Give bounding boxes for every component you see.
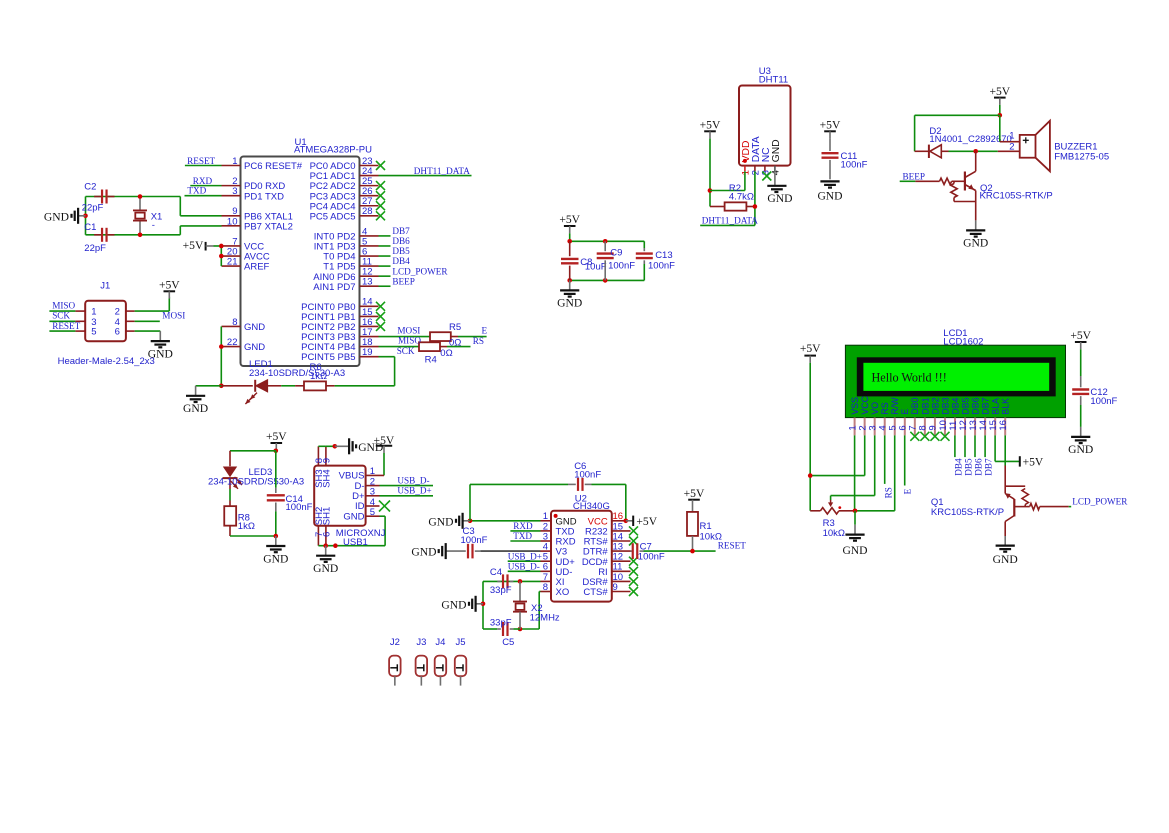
svg-text:PD1 TXD: PD1 TXD	[244, 191, 284, 202]
svg-text:MISO: MISO	[52, 300, 75, 310]
svg-text:19: 19	[362, 347, 373, 358]
svg-text:100nF: 100nF	[608, 261, 635, 272]
svg-text:MISO: MISO	[398, 336, 421, 346]
svg-text:100nF: 100nF	[1090, 396, 1117, 407]
svg-text:GND: GND	[313, 562, 338, 575]
svg-text:J2: J2	[390, 637, 400, 648]
svg-text:22: 22	[227, 337, 238, 348]
svg-text:33pF: 33pF	[490, 618, 512, 629]
svg-text:DB5: DB5	[392, 246, 410, 256]
svg-text:USB_D-: USB_D-	[397, 476, 429, 486]
svg-text:SCK: SCK	[52, 311, 70, 321]
svg-text:234-10SDRD/S530-A3: 234-10SDRD/S530-A3	[249, 368, 345, 379]
svg-text:RS: RS	[473, 336, 484, 346]
svg-text:10uF: 10uF	[585, 262, 607, 273]
svg-text:4.7kΩ: 4.7kΩ	[729, 192, 754, 203]
svg-text:J1: J1	[100, 281, 110, 292]
svg-text:DB2: DB2	[930, 397, 940, 414]
svg-text:SCK: SCK	[397, 346, 415, 356]
svg-text:+5V: +5V	[1023, 456, 1044, 469]
svg-text:GND: GND	[244, 342, 265, 353]
svg-text:+5V: +5V	[183, 239, 204, 252]
svg-text:DB4: DB4	[392, 256, 410, 266]
svg-text:LCD1602: LCD1602	[943, 336, 983, 347]
svg-text:RESET: RESET	[52, 321, 80, 331]
svg-text:SH4: SH4	[322, 469, 333, 487]
svg-text:+5V: +5V	[559, 213, 580, 226]
svg-text:+5V: +5V	[266, 430, 287, 443]
svg-text:+5V: +5V	[1070, 329, 1091, 342]
svg-text:DB5: DB5	[963, 458, 973, 476]
svg-text:GND: GND	[343, 511, 364, 522]
svg-text:C5: C5	[502, 637, 514, 648]
svg-text:MOSI: MOSI	[162, 310, 185, 320]
svg-text:DB6: DB6	[970, 397, 980, 414]
svg-text:8: 8	[543, 582, 548, 593]
svg-text:8: 8	[232, 317, 237, 328]
svg-text:100nF: 100nF	[648, 261, 675, 272]
svg-text:C13: C13	[655, 250, 672, 261]
svg-text:R5: R5	[449, 322, 461, 333]
svg-text:21: 21	[227, 257, 238, 268]
svg-text:J5: J5	[456, 637, 466, 648]
svg-text:TXD: TXD	[513, 531, 532, 541]
svg-text:RS: RS	[880, 402, 890, 414]
svg-text:+5V: +5V	[820, 119, 841, 132]
svg-text:DHT11_DATA: DHT11_DATA	[414, 166, 470, 176]
svg-text:MOSI: MOSI	[397, 326, 420, 336]
svg-text:DB7: DB7	[984, 458, 994, 476]
svg-text:1kΩ: 1kΩ	[238, 521, 255, 532]
svg-text:1: 1	[1009, 130, 1014, 141]
svg-text:100nF: 100nF	[461, 535, 488, 546]
svg-text:CTS#: CTS#	[583, 587, 608, 598]
svg-text:DB1: DB1	[920, 397, 930, 414]
svg-text:10: 10	[227, 216, 238, 227]
svg-text:4: 4	[771, 170, 782, 175]
svg-text:GND: GND	[263, 552, 288, 565]
svg-text:USB_D+: USB_D+	[397, 486, 431, 496]
svg-text:USB_D+: USB_D+	[508, 552, 542, 562]
svg-text:22pF: 22pF	[84, 243, 106, 254]
svg-text:GND: GND	[244, 322, 265, 333]
svg-text:GND: GND	[993, 553, 1018, 566]
svg-text:22pF: 22pF	[82, 202, 104, 213]
svg-text:6: 6	[115, 327, 120, 338]
svg-text:TXD: TXD	[187, 185, 206, 195]
svg-text:28: 28	[362, 206, 373, 217]
svg-text:GND: GND	[557, 297, 582, 310]
svg-text:BLA: BLA	[991, 398, 1001, 415]
svg-text:GND: GND	[771, 139, 782, 162]
svg-text:C2: C2	[84, 181, 96, 192]
svg-text:E: E	[482, 326, 488, 336]
svg-text:VO: VO	[870, 402, 880, 415]
svg-text:6: 6	[321, 532, 332, 537]
svg-text:E: E	[900, 409, 910, 415]
svg-text:10kΩ: 10kΩ	[823, 528, 845, 539]
svg-text:234-10SDRD/S530-A3: 234-10SDRD/S530-A3	[208, 477, 304, 488]
svg-text:RXD: RXD	[513, 521, 533, 531]
svg-text:VCC: VCC	[860, 395, 870, 414]
svg-text:+5V: +5V	[989, 85, 1010, 98]
svg-text:PC6 RESET#: PC6 RESET#	[244, 161, 303, 172]
svg-text:GND: GND	[44, 210, 69, 223]
svg-text:GND: GND	[441, 598, 466, 611]
svg-text:GND: GND	[411, 546, 436, 559]
svg-text:DB7: DB7	[981, 397, 991, 414]
svg-text:DB0: DB0	[910, 397, 920, 414]
svg-text:12MHz: 12MHz	[530, 612, 560, 623]
svg-text:LCD_POWER: LCD_POWER	[392, 266, 448, 276]
svg-text:9: 9	[321, 458, 332, 463]
svg-text:E: E	[902, 488, 912, 494]
svg-text:33pF: 33pF	[490, 585, 512, 596]
svg-text:DB4: DB4	[953, 458, 963, 476]
svg-text:C4: C4	[490, 567, 502, 578]
svg-text:+5V: +5V	[636, 515, 657, 528]
svg-text:J4: J4	[435, 637, 445, 648]
svg-text:100nF: 100nF	[638, 551, 665, 562]
svg-text:KRC105S-RTK/P: KRC105S-RTK/P	[931, 507, 1004, 518]
svg-text:GND: GND	[842, 544, 867, 557]
svg-text:J3: J3	[416, 637, 426, 648]
svg-text:LCD_POWER: LCD_POWER	[1072, 496, 1128, 506]
svg-text:PC5 ADC5: PC5 ADC5	[310, 211, 356, 222]
svg-text:1kΩ: 1kΩ	[310, 371, 327, 382]
svg-text:16: 16	[998, 420, 1009, 431]
svg-text:ATMEGA328P-PU: ATMEGA328P-PU	[294, 145, 372, 156]
svg-text:1: 1	[232, 156, 237, 167]
svg-text:USB1: USB1	[343, 537, 368, 548]
svg-text:+5V: +5V	[700, 119, 721, 132]
svg-text:GND: GND	[183, 402, 208, 415]
svg-text:VSS: VSS	[850, 397, 860, 415]
svg-text:+5V: +5V	[684, 487, 705, 500]
svg-text:CH340G: CH340G	[573, 501, 610, 512]
svg-text:DHT11_DATA: DHT11_DATA	[702, 215, 758, 225]
svg-text:AIN1 PD7: AIN1 PD7	[313, 282, 355, 293]
svg-text:GND: GND	[767, 192, 792, 205]
svg-text:Hello World !!!: Hello World !!!	[872, 371, 947, 385]
svg-text:+5V: +5V	[800, 342, 821, 355]
svg-text:GND: GND	[963, 237, 988, 250]
svg-text:AREF: AREF	[244, 262, 270, 273]
svg-text:100nF: 100nF	[574, 470, 601, 481]
svg-text:SH1: SH1	[322, 507, 333, 525]
svg-text:RESET: RESET	[187, 156, 215, 166]
svg-text:+5V: +5V	[159, 279, 180, 292]
svg-text:DHT11: DHT11	[759, 74, 788, 85]
svg-text:5: 5	[370, 507, 375, 518]
svg-text:BLK: BLK	[1001, 398, 1011, 415]
svg-text:Header-Male-2.54_2x3: Header-Male-2.54_2x3	[58, 356, 155, 367]
svg-text:RESET: RESET	[718, 540, 746, 550]
svg-text:13: 13	[362, 277, 373, 288]
svg-text:5: 5	[91, 327, 96, 338]
svg-text:GND: GND	[1068, 443, 1093, 456]
svg-text:DB6: DB6	[973, 458, 983, 476]
svg-text:XO: XO	[556, 587, 570, 598]
svg-text:DB3: DB3	[940, 397, 950, 414]
svg-text:PB7 XTAL2: PB7 XTAL2	[244, 221, 293, 232]
svg-text:GND: GND	[817, 189, 842, 202]
svg-text:DB7: DB7	[392, 226, 410, 236]
svg-text:BEEP: BEEP	[392, 276, 414, 286]
svg-text:RS: RS	[883, 487, 893, 498]
svg-text:2: 2	[1009, 142, 1014, 153]
svg-text:BEEP: BEEP	[903, 171, 925, 181]
svg-text:0Ω: 0Ω	[440, 348, 452, 359]
svg-text:R4: R4	[425, 354, 437, 365]
svg-text:-: -	[152, 220, 155, 231]
svg-text:100nF: 100nF	[841, 159, 868, 170]
svg-text:DB5: DB5	[960, 397, 970, 414]
svg-text:C9: C9	[610, 248, 622, 259]
svg-text:C1: C1	[84, 222, 96, 233]
svg-text:FMB1275-05: FMB1275-05	[1054, 152, 1109, 163]
svg-text:3: 3	[232, 186, 237, 197]
svg-text:DB4: DB4	[950, 397, 960, 414]
svg-text:GND: GND	[428, 515, 453, 528]
svg-text:DB6: DB6	[392, 236, 410, 246]
svg-text:9: 9	[613, 582, 618, 593]
svg-text:100nF: 100nF	[286, 502, 313, 513]
svg-text:KRC105S-RTK/P: KRC105S-RTK/P	[980, 190, 1053, 201]
svg-text:USB_D-: USB_D-	[508, 562, 540, 572]
svg-text:R/W: R/W	[890, 397, 900, 415]
